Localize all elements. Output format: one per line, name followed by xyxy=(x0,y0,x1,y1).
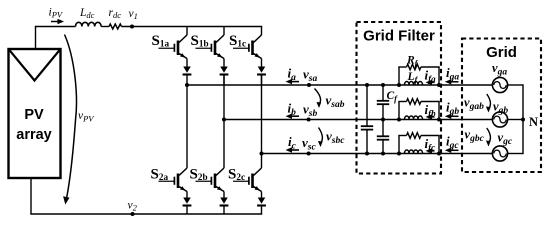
node cap junctions xyxy=(365,83,369,87)
source vga xyxy=(492,77,507,92)
wire source c to neutral xyxy=(508,153,523,155)
diode top leg b xyxy=(223,59,225,67)
node N xyxy=(521,118,525,122)
source vgb xyxy=(492,112,507,127)
RL filter block phase a xyxy=(398,67,400,85)
RL filter block phase b xyxy=(398,102,400,120)
node phase c tap xyxy=(260,152,264,156)
svg-text:v2: v2 xyxy=(128,200,138,213)
wire phase c xyxy=(262,153,493,155)
resistor rdc xyxy=(109,24,122,29)
RL filter block phase c xyxy=(398,136,400,154)
node vsc tap xyxy=(307,152,311,156)
wire leg a mid xyxy=(186,85,188,168)
wire top dc link xyxy=(35,26,76,28)
node phase a tap xyxy=(185,83,189,87)
voltage vgab arc xyxy=(487,94,491,109)
svg-text:N: N xyxy=(529,115,538,129)
svg-text:PV: PV xyxy=(24,107,44,123)
svg-text:iPV: iPV xyxy=(49,7,64,20)
svg-text:Ldc: Ldc xyxy=(79,7,95,20)
wire phase b xyxy=(224,119,492,121)
transistor S1b xyxy=(223,27,225,36)
wire xyxy=(101,26,109,28)
source vgc xyxy=(492,146,507,161)
wire source a to neutral xyxy=(508,84,523,86)
transistor S2a xyxy=(177,174,180,189)
inductor Ldc xyxy=(76,22,102,26)
wire phase a xyxy=(187,84,492,86)
current iPV arrow xyxy=(51,21,60,23)
wire neutral vertical xyxy=(522,84,524,154)
wire bottom rail xyxy=(30,213,262,215)
voltage vsab arc xyxy=(315,89,321,105)
capacitor Cbc xyxy=(382,120,384,137)
node v1 xyxy=(130,25,134,29)
transistor S1a xyxy=(186,27,188,36)
transistor S2b xyxy=(214,174,217,189)
svg-text:rdc: rdc xyxy=(109,7,122,20)
diode bottom leg c xyxy=(261,192,263,198)
svg-text:v1: v1 xyxy=(129,8,138,21)
voltage vPV arc xyxy=(65,35,77,198)
wire leg c mid xyxy=(261,75,263,169)
grid filter box xyxy=(357,22,442,174)
wire PV top riser xyxy=(35,27,37,50)
wire source b to neutral xyxy=(508,119,523,121)
wire PV bottom riser xyxy=(30,178,32,214)
diode top leg a xyxy=(186,59,188,67)
capacitor Cca xyxy=(366,85,368,126)
grid box xyxy=(462,39,541,173)
node v2 xyxy=(131,212,135,216)
node phase b tap xyxy=(222,118,226,122)
diode bottom leg b xyxy=(223,192,225,198)
PV array box xyxy=(9,49,61,178)
transistor S2c xyxy=(251,174,254,189)
wire top rail xyxy=(122,26,263,28)
svg-text:Grid Filter: Grid Filter xyxy=(363,28,435,45)
svg-text:Grid: Grid xyxy=(486,44,517,61)
svg-text:array: array xyxy=(16,127,51,143)
wire leg b mid xyxy=(223,75,225,169)
voltage vgbc arc xyxy=(487,128,491,143)
transistor S1c xyxy=(261,27,263,36)
diode bottom leg a xyxy=(186,192,188,198)
diode top leg c xyxy=(261,59,263,67)
voltage vsbc arc xyxy=(319,128,323,144)
node vsa tap xyxy=(307,83,311,87)
node vsb tap xyxy=(307,118,311,122)
capacitor Cab xyxy=(382,85,384,101)
